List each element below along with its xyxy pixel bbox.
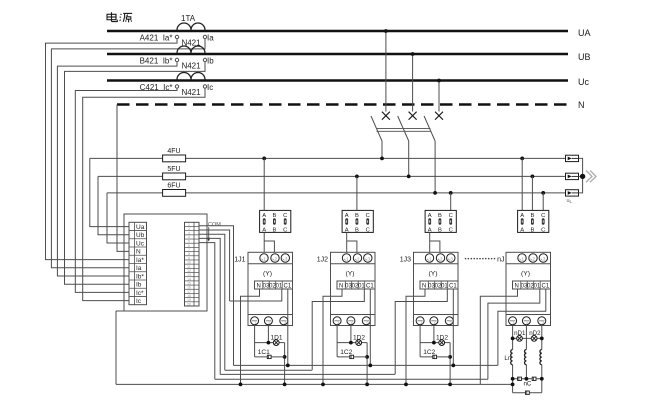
capacitor line 1C2 — [337, 356, 367, 358]
node nC row 3 — [540, 377, 544, 381]
wire C1-cell of 1J1 down to line L1 — [287, 289, 289, 365]
switch pole 3 wire to phase wire — [434, 141, 436, 193]
svg-text:C1: C1 — [366, 283, 374, 289]
node arrester common junction — [580, 174, 585, 179]
node elbow on 1C2 line — [448, 355, 452, 359]
node lamp row left — [511, 337, 515, 341]
CT secondary terminal Ia circle — [203, 35, 206, 38]
svg-text:1C2: 1C2 — [340, 349, 352, 356]
wire 01-cell of 1J1 to routing line — [230, 289, 282, 301]
node nC row 1 — [511, 377, 515, 381]
wire C1-cell of 1J2 down to line L1 — [369, 289, 371, 365]
svg-text:Ia: Ia — [207, 33, 214, 42]
surge arrester box 3 with arrow — [566, 190, 579, 196]
svg-text:01: 01 — [358, 283, 365, 289]
node 1J3 N on neutral line — [404, 383, 408, 387]
svg-text:N: N — [136, 249, 141, 256]
node elbow on 1C1 line — [283, 355, 287, 359]
wire elbow from 1D2 down to neutral line — [366, 343, 368, 385]
node nC row 2 — [525, 377, 529, 381]
svg-text:3: 3 — [285, 257, 288, 262]
wire drops from wires A B C to block nJ (nodes) — [520, 157, 524, 161]
signal wire 2 from terminal strip to meter 1J1 terminal 01 — [199, 230, 230, 301]
bus N (neutral, dashed) — [117, 103, 568, 106]
wire line L3 (to meter 1J3 terminal 01) — [220, 373, 395, 375]
svg-text:1: 1 — [346, 257, 349, 262]
svg-text:COM: COM — [208, 222, 221, 228]
indicator lamp 1D2 — [356, 340, 362, 346]
link element C in block for nJ — [542, 218, 545, 224]
wire jumper to meter terminal 2 — [430, 241, 440, 252]
link element C in block for 1J3 — [449, 218, 452, 224]
svg-text:1C2: 1C2 — [423, 349, 435, 356]
node pole 1 junction — [380, 157, 384, 161]
wire B phase distribution (from 5FU) — [98, 175, 566, 177]
capacitor nC symbol a — [518, 377, 522, 380]
meter 1J2 bottom terminals — [333, 317, 341, 325]
inductor coil Ln phase 1 — [511, 350, 513, 365]
indicator lamp 1D1 line — [255, 342, 274, 344]
node tap on bus (pole 1) — [384, 29, 388, 33]
switch pole 1 blade — [371, 116, 382, 141]
signal wire 3 from terminal strip to line L2 — [199, 234, 225, 370]
signal wire 5 from terminal strip to line L4 — [199, 243, 215, 380]
wire Ua from wire A down to terminal strip — [90, 158, 129, 226]
CT secondary terminal Ic circle — [203, 85, 206, 88]
svg-text:Ib: Ib — [136, 282, 142, 289]
wire A phase distribution (from 4FU) — [90, 157, 566, 159]
indicator lamp 1D2 line — [337, 342, 356, 344]
svg-text:N: N — [422, 283, 426, 289]
wire block-1J3 column A to meter terminal 1 — [429, 232, 431, 252]
meter 1J1 terminal row N 03 02 01 C1 — [255, 281, 293, 289]
svg-text:4FU: 4FU — [167, 148, 180, 155]
svg-text:N421: N421 — [181, 88, 201, 97]
node 1J2 C1 on line L1 — [368, 364, 372, 368]
wire N tap from neutral bus down to terminal strip — [117, 105, 129, 252]
svg-text:N: N — [339, 283, 343, 289]
svg-text:UA: UA — [578, 28, 591, 38]
fuse 4FU — [163, 155, 186, 162]
svg-text:N: N — [514, 283, 518, 289]
capacitor 1C1 symbol — [267, 355, 271, 358]
svg-text:20: 20 — [187, 302, 191, 306]
bus UB (phase B busbar) — [107, 53, 568, 56]
svg-text:1J3: 1J3 — [400, 257, 411, 264]
wire line N common (bottom neutral) — [116, 383, 513, 385]
switch pole 2 drop wire from bus — [412, 54, 414, 112]
earth/neutral wire from box to bottom neutral line — [116, 310, 124, 312]
wire from bottom terminal 2 of 1J2 — [350, 325, 352, 343]
fuse 5FU — [163, 173, 186, 180]
meter nJ terminal row N 03 02 01 C1 — [513, 281, 551, 289]
svg-text:C: C — [541, 228, 545, 234]
line nC row — [513, 378, 542, 380]
link element B in block for 1J2 — [356, 218, 359, 224]
svg-text:N: N — [256, 283, 260, 289]
meter 1J2 top terminals — [342, 254, 350, 262]
wire jumper to meter terminal 2 — [347, 241, 357, 252]
link element C in block for 1J1 — [284, 218, 287, 224]
CT secondary terminal Ia* (polarity) circle — [175, 35, 178, 38]
earth arrow symbol (grey chevrons) — [586, 171, 596, 183]
switch pole 1 drop wire from bus — [385, 31, 387, 112]
signal terminal strip (right, numbered) — [185, 222, 200, 306]
capacitor line 1C1 — [255, 356, 285, 358]
node tap on bus (pole 2) — [411, 52, 415, 56]
indicator lamp nD1 — [517, 336, 523, 342]
wire drop from wire C to block 3 (node) — [449, 191, 453, 195]
wire elbow from 1D1 down to neutral line — [284, 343, 286, 385]
CT 1TA phase A humps — [177, 23, 205, 30]
wire jumper to meter terminal 2 — [264, 241, 274, 252]
link element A in block for nJ — [521, 218, 524, 224]
switch pole 3 blade — [424, 116, 435, 141]
wire nJ C1-cell to line L1 — [498, 289, 546, 365]
node pole 3 junction — [433, 191, 437, 195]
CT 1TA phase C humps — [177, 73, 205, 80]
link element A in block for 1J1 — [263, 218, 266, 224]
wire Ib* from CT to terminal strip — [57, 62, 177, 276]
wire nJ N-cell to line L1 (via left jog) — [480, 289, 517, 384]
wire nJ bottom terminal 3 down — [541, 325, 543, 350]
meter 1J1 top terminals — [260, 254, 268, 262]
svg-text:A421 Ia*: A421 Ia* — [140, 33, 173, 42]
CT secondary terminal Ic* (polarity) circle — [175, 85, 178, 88]
wire Uc from wire C down to terminal strip — [107, 193, 129, 243]
switch pole 1 contact X mark — [382, 112, 390, 120]
capacitor 1C2 symbol — [433, 355, 437, 358]
svg-text:(Y): (Y) — [428, 271, 437, 278]
bus UA (phase A busbar) — [107, 30, 568, 33]
test terminal block for nJ — [518, 210, 549, 232]
capacitor line 1C2 — [420, 356, 450, 358]
meter 1J3 terminal row N 03 02 01 C1 — [420, 281, 458, 289]
node elbow on neutral line — [365, 383, 369, 387]
meter nJ bottom terminals — [509, 317, 517, 325]
svg-text:Ub: Ub — [136, 232, 145, 239]
test terminal block for 1J1 — [260, 210, 291, 232]
node elbow on 1C2 line — [365, 355, 369, 359]
svg-text:Uc: Uc — [578, 77, 589, 87]
node elbow on neutral line — [448, 383, 452, 387]
label 电源 (power source), drawn as vector strokes — [107, 12, 132, 22]
indicator lamp 1D2 line — [420, 342, 439, 344]
node tap on bus (pole 3) — [437, 79, 441, 83]
wire from bottom terminal 1 of 1J2 — [336, 325, 338, 357]
wire 01-cell of 1J2 to routing line — [312, 289, 364, 370]
COM arrow marker pointing down across signal wires — [208, 227, 210, 239]
svg-text:2: 2 — [533, 257, 536, 262]
svg-text:3: 3 — [543, 257, 546, 262]
signal wire 1 from terminal strip to line L1 — [199, 226, 234, 366]
svg-text:3: 3 — [450, 257, 453, 262]
svg-text:Ic: Ic — [136, 298, 142, 305]
svg-text:B: B — [355, 228, 359, 234]
indicator lamp 1D1 — [273, 340, 279, 346]
svg-text:C1: C1 — [542, 283, 550, 289]
svg-text:(Y): (Y) — [345, 271, 354, 278]
terminal box outline — [124, 214, 207, 311]
svg-text:1J1: 1J1 — [234, 257, 245, 264]
switch linkage bar (mechanical tie) — [377, 128, 431, 130]
meter 1J2 terminal row N 03 02 01 C1 — [337, 281, 375, 289]
surge arrester box 2 with arrow — [566, 173, 579, 179]
wire Ic from CT to terminal strip — [83, 88, 205, 300]
capacitor symbol bottom of nC loop — [526, 391, 530, 394]
svg-text:C: C — [283, 228, 287, 234]
node 1J1 C1 on line L1 — [286, 364, 290, 368]
svg-text:Uc: Uc — [136, 240, 145, 247]
U loop bottom of nC section — [513, 392, 542, 394]
meter nJ box — [506, 252, 551, 325]
wire block-1J2 column A to meter terminal 1 — [346, 232, 348, 252]
node neutral line joins nC loop — [511, 383, 515, 387]
svg-text:nJ: nJ — [497, 257, 504, 264]
wire drop from wire A to block 1 (node) — [262, 157, 266, 161]
svg-text:1: 1 — [522, 257, 525, 262]
test terminal block for 1J3 — [425, 210, 456, 232]
wire nJ bottom terminal 2 down — [525, 325, 527, 350]
meter 1J3 top terminals — [425, 254, 433, 262]
fuse 6FU — [163, 190, 186, 197]
switch pole 3 contact X mark — [435, 112, 443, 120]
svg-text:Ic: Ic — [207, 83, 213, 92]
svg-text:5FU: 5FU — [167, 166, 180, 173]
svg-text:1C1: 1C1 — [258, 349, 270, 356]
wire from bottom terminal 2 of 1J1 — [267, 325, 269, 343]
svg-text:(Y): (Y) — [263, 271, 272, 278]
svg-text:A: A — [520, 228, 524, 234]
wire drop from wire B to block 2 (node) — [355, 175, 359, 179]
wire C phase distribution (from 6FU) — [107, 192, 566, 194]
svg-text:Ib*: Ib* — [136, 273, 144, 280]
wire nJ bottom terminal 1 down — [512, 325, 514, 350]
svg-text:1: 1 — [264, 257, 267, 262]
svg-text:3: 3 — [367, 257, 370, 262]
meter 1J2 box — [331, 252, 376, 325]
signal wire 4 from terminal strip to line L3 — [199, 238, 220, 374]
svg-text:C1: C1 — [449, 283, 457, 289]
wire 01-cell of 1J3 to routing line — [395, 289, 447, 374]
svg-text:B421 Ib*: B421 Ib* — [140, 56, 173, 65]
capacitor 1C2 symbol — [350, 355, 354, 358]
indicator lamp 1D2 — [439, 340, 445, 346]
node elbow on neutral line — [283, 383, 287, 387]
switch pole 2 contact X mark — [409, 112, 417, 120]
meter 1J1 box — [248, 252, 293, 325]
svg-text:01: 01 — [534, 283, 541, 289]
svg-text:1D2: 1D2 — [353, 334, 365, 341]
switch pole 3 drop wire from bus — [438, 81, 440, 112]
svg-text:B: B — [438, 228, 442, 234]
node 1J1 N on neutral line — [239, 383, 243, 387]
lamp row line nD — [513, 337, 542, 339]
switch pole 2 blade — [398, 116, 409, 141]
capacitor nC symbol b — [532, 377, 536, 380]
svg-text:B: B — [530, 228, 534, 234]
node junction on 1D2 line — [432, 341, 436, 345]
svg-text:2: 2 — [357, 257, 360, 262]
svg-text:C: C — [449, 228, 453, 234]
wire C1-cell of 1J3 down to line L1 — [452, 289, 454, 365]
wire N-cell of 1J3 to neutral line — [406, 289, 425, 384]
svg-text:01: 01 — [276, 283, 283, 289]
svg-text:Ia*: Ia* — [136, 257, 144, 264]
link element B in block for nJ — [531, 218, 534, 224]
CT 1TA phase B humps — [177, 46, 205, 53]
node pole 2 junction — [407, 175, 411, 179]
wire from bottom terminal 2 of 1J3 — [433, 325, 435, 343]
svg-text:(Y): (Y) — [521, 271, 530, 278]
svg-text:UB: UB — [578, 52, 591, 62]
wire Ib from CT to terminal strip — [65, 62, 206, 285]
indicator lamp nD2 — [531, 336, 537, 342]
svg-text:nC: nC — [523, 380, 531, 387]
node junction on 1D2 line — [349, 341, 353, 345]
wire line L2 (to meter 1J2 terminal 01) — [225, 369, 312, 371]
svg-text:2: 2 — [440, 257, 443, 262]
switch pole 1 wire to phase wire — [381, 141, 383, 158]
svg-text:B: B — [272, 228, 276, 234]
wire Ia* from CT to terminal strip — [46, 39, 178, 260]
node junction on 1D1 line — [267, 341, 271, 345]
link element A in block for 1J3 — [428, 218, 431, 224]
svg-text:01: 01 — [441, 283, 448, 289]
node 1J3 C1 on line L1 — [451, 364, 455, 368]
svg-text:Ib: Ib — [207, 56, 214, 65]
svg-text:N421: N421 — [181, 62, 201, 71]
svg-text:1TA: 1TA — [181, 14, 196, 23]
node lamp row right — [540, 337, 544, 341]
meter 1J3 box — [414, 252, 459, 325]
svg-text:nD1: nD1 — [514, 330, 526, 337]
svg-text:C1: C1 — [284, 283, 292, 289]
wire joining arrester outputs — [579, 158, 583, 193]
wire block-1J1 column A to meter terminal 1 — [263, 232, 265, 252]
switch pole 2 wire to phase wire — [408, 141, 410, 176]
inductor coil Ln phase 2 — [525, 350, 527, 365]
inductor coil Ln phase 3 — [540, 350, 542, 365]
svg-text:6FU: 6FU — [167, 183, 180, 190]
svg-text:1D1: 1D1 — [270, 334, 282, 341]
meter 1J3 bottom terminals — [416, 317, 424, 325]
svg-text:N: N — [578, 100, 585, 110]
svg-text:C: C — [366, 228, 370, 234]
voltage/current terminal strip (left) — [129, 222, 147, 304]
svg-text:1: 1 — [429, 257, 432, 262]
CT secondary terminal Ib circle — [203, 58, 206, 61]
wire from bottom terminal 1 of 1J3 — [419, 325, 421, 357]
wire from bottom terminal 1 of 1J1 — [254, 325, 256, 357]
dotted continuation leader — [465, 258, 467, 260]
svg-text:1D2: 1D2 — [436, 334, 448, 341]
wire line L1 (C-terminals common) — [234, 364, 498, 366]
meter nJ top terminals — [518, 254, 526, 262]
link element B in block for 1J1 — [273, 218, 276, 224]
link element C in block for 1J2 — [366, 218, 369, 224]
wire Ub from wire B down to terminal strip — [98, 176, 129, 234]
svg-text:1J2: 1J2 — [317, 257, 328, 264]
node 1J2 N on neutral line — [321, 383, 325, 387]
link element B in block for 1J3 — [439, 218, 442, 224]
meter 1J1 bottom terminals — [251, 317, 259, 325]
wire nJ 01-cell to line L4 — [488, 289, 540, 379]
wire elbow from 1D2 down to neutral line — [449, 343, 451, 385]
wire Ia from CT to terminal strip — [51, 39, 205, 268]
svg-text:nD2: nD2 — [529, 330, 541, 337]
link element A in block for 1J2 — [345, 218, 348, 224]
svg-text:2: 2 — [275, 257, 278, 262]
svg-text:Ia: Ia — [136, 265, 142, 272]
bus Uc (phase C busbar) — [107, 79, 568, 82]
svg-text:Ic*: Ic* — [136, 290, 144, 297]
wire N-cell of 1J1 to neutral line — [241, 289, 260, 384]
svg-text:Ua: Ua — [136, 224, 145, 231]
wire Ic* from CT to terminal strip — [75, 88, 177, 292]
wire line L4 (to meter nJ terminal 01) — [215, 378, 488, 380]
surge arrester box 1 with arrow — [566, 155, 579, 161]
test terminal block for 1J2 — [342, 210, 373, 232]
CT secondary terminal Ib* (polarity) circle — [175, 58, 178, 61]
wire N-cell of 1J2 to neutral line — [323, 289, 342, 384]
